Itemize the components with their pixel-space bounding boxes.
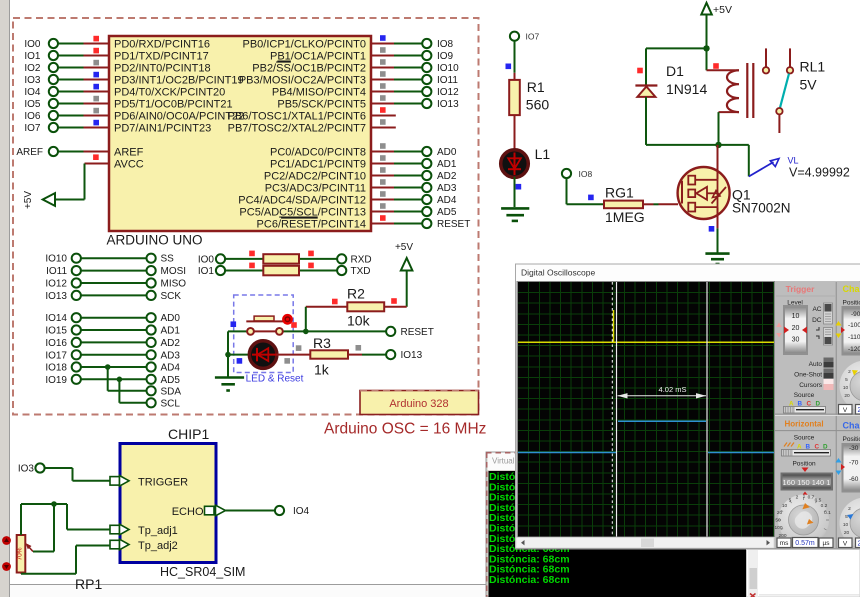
svg-text:Distóncia: 68cm: Distóncia: 68cm (489, 574, 570, 586)
svg-text:IO11: IO11 (46, 266, 67, 277)
svg-text:RL1: RL1 (800, 59, 826, 75)
state indicator (249, 263, 255, 269)
svg-text:10: 10 (792, 313, 800, 320)
terminal pair IO19 to AD5, wire (45, 375, 180, 386)
state indicator (506, 64, 512, 70)
terminal RESET, wire from U1 pin PC6/RESET/PCINT14, state indicator (371, 215, 470, 230)
wire L1 to ground (514, 177, 516, 207)
terminal pair IO11 to MOSI, wire (46, 266, 186, 277)
svg-text:Position: Position (792, 461, 816, 468)
terminal IO8 (gate drive) (562, 169, 593, 179)
svg-text:HC_SR04_SIM: HC_SR04_SIM (160, 565, 245, 579)
svg-text:DC: DC (812, 317, 822, 324)
node junction left rail (225, 352, 231, 358)
svg-text:ECHO: ECHO (172, 506, 204, 518)
svg-text:Source: Source (794, 435, 815, 442)
svg-text:ARDUINO UNO: ARDUINO UNO (107, 233, 203, 248)
svg-text:10: 10 (843, 385, 849, 391)
wire +5V to D1 cathode (646, 48, 707, 85)
cursor line 1 (616, 282, 618, 537)
wire junction to LED anode (228, 354, 250, 356)
state indicator (308, 263, 314, 269)
wire D1 to drain junction (646, 144, 719, 146)
svg-text:PC2/ADC2/PCINT10: PC2/ADC2/PCINT10 (264, 171, 366, 183)
wire IO7 to R1 (514, 41, 516, 80)
terminal IO1, series resistor, terminal TXD (198, 266, 371, 277)
terminal AD1, wire from U1 pin PC1/ADC1/PCINT9, state indicator (371, 155, 457, 170)
svg-text:Digital Oscilloscope: Digital Oscilloscope (521, 268, 595, 278)
Trigger source selector (784, 392, 826, 413)
svg-text:IO12: IO12 (45, 279, 67, 290)
svg-text:SCK: SCK (161, 291, 182, 302)
svg-text:PD4/T0/XCK/PCINT20: PD4/T0/XCK/PCINT20 (114, 87, 225, 99)
blue dashed group box "LED &amp; Reset" (234, 295, 294, 373)
svg-text:IO3: IO3 (18, 464, 35, 475)
svg-text:AD4: AD4 (437, 195, 457, 206)
svg-text:AD0: AD0 (437, 147, 457, 158)
terminal IO0, series resistor, terminal RXD (198, 254, 372, 265)
svg-text:D1: D1 (666, 63, 684, 79)
relay RL1 coil (707, 48, 754, 144)
svg-text:PB7/TOSC2/XTAL2/PCINT7: PB7/TOSC2/XTAL2/PCINT7 (228, 123, 366, 135)
interactive button actuator (red circle) (282, 314, 293, 325)
node junction drain net (715, 142, 721, 148)
svg-text:4.02 mS: 4.02 mS (659, 385, 687, 394)
svg-text:R2: R2 (347, 285, 365, 301)
bottom-right white panel window (747, 550, 860, 599)
svg-text:IO18: IO18 (45, 363, 67, 374)
svg-text:-110: -110 (848, 334, 860, 341)
svg-text:0.7: 0.7 (808, 495, 815, 501)
Level gauge (776, 300, 808, 356)
terminal AD0, wire from U1 pin PC0/ADC0/PCINT8, state indicator (371, 143, 457, 158)
svg-text:IO1: IO1 (198, 266, 215, 277)
svg-text:LED & Reset: LED & Reset (246, 374, 304, 385)
terminal pair IO14 to AD0, wire (45, 313, 180, 324)
svg-text:IO6: IO6 (24, 111, 41, 122)
AC/DC switch (812, 303, 832, 324)
oscilloscope screen (517, 281, 775, 537)
svg-text:PD2/INT0/PCINT18: PD2/INT0/PCINT18 (114, 63, 211, 75)
svg-text:SS: SS (161, 254, 175, 265)
wire R1 to LED L1 (514, 115, 516, 151)
node junction pot top/wiper (51, 501, 57, 507)
svg-text:RESET: RESET (401, 327, 434, 338)
terminal IO1, wire to U1 pin PD1/TXD/PCINT17, state indicator (24, 48, 109, 62)
svg-text:TRIGGER: TRIGGER (138, 477, 188, 489)
svg-text:PD0/RXD/PCINT16: PD0/RXD/PCINT16 (114, 39, 210, 51)
svg-text:1MEG: 1MEG (605, 209, 645, 225)
svg-text:+5V: +5V (23, 191, 34, 209)
svg-text:SDA: SDA (161, 386, 182, 397)
Virtual Terminal text lines (489, 471, 570, 586)
resistor R1 560 (509, 79, 549, 115)
LED D (red, in group) (249, 341, 278, 369)
CHIP1 pin Tp_adj1 (110, 524, 178, 537)
terminal IO6, wire to U1 pin PD6/AIN0/OC0A/PCINT22, state indicator (24, 108, 109, 122)
Auto / One-Shot / Cursors buttons (794, 358, 833, 391)
terminal IO5, wire to U1 pin PD5/T1/OC0B/PCINT21, state indicator (24, 96, 109, 110)
terminal AD2, wire from U1 pin PC2/ADC2/PCINT10, state indicator (371, 167, 457, 182)
potentiometer RP1 body (17, 535, 26, 573)
svg-text:RP1: RP1 (75, 576, 102, 592)
state indicator (588, 195, 594, 201)
svg-text:Cursors: Cursors (799, 382, 823, 389)
svg-text:AREF: AREF (114, 147, 144, 159)
cursor line 2 (706, 282, 708, 537)
relay RL1 contacts (763, 48, 793, 133)
svg-text:IO17: IO17 (45, 350, 67, 361)
svg-text:IO5: IO5 (24, 99, 41, 110)
svg-text:560: 560 (526, 97, 550, 113)
wire RG1 to Q1 gate (643, 203, 678, 205)
label Q1 SN7002N (732, 187, 791, 216)
IC ATmega328 (ARDUINO UNO) body (109, 36, 371, 231)
svg-text:Position: Position (843, 300, 860, 307)
wire Q1 source to ground (717, 207, 719, 253)
svg-text:PD6/AIN0/OC0A/PCINT22: PD6/AIN0/OC0A/PCINT22 (114, 111, 244, 123)
ground (Q1 source) (705, 254, 729, 264)
svg-text:IO13: IO13 (437, 99, 459, 110)
cursor dashed line (611, 282, 613, 537)
svg-text:5V: 5V (800, 77, 818, 93)
wire stub U1 pin PB6/TOSC1/XTAL1/PCINT6 (371, 107, 396, 115)
svg-text:AD5: AD5 (161, 375, 181, 386)
svg-text:MISO: MISO (161, 279, 187, 290)
svg-text:AD1: AD1 (161, 326, 181, 337)
terminal pair IO17 to AD3, wire (45, 350, 180, 361)
terminal AD4, wire from U1 pin PC4/ADC4/SDA/PCINT12, state indicator (371, 191, 457, 206)
RP1 wiper arrow (26, 543, 34, 552)
svg-text:20: 20 (844, 393, 850, 399)
svg-text:AREF: AREF (16, 147, 43, 158)
svg-text:20: 20 (844, 530, 850, 536)
svg-text:PD1/TXD/PCINT17: PD1/TXD/PCINT17 (114, 51, 209, 63)
state indicator (308, 251, 314, 257)
terminal RESET (386, 327, 434, 338)
svg-text:VL: VL (788, 156, 799, 166)
state indicator (709, 226, 715, 232)
svg-text:RG1: RG1 (605, 185, 634, 201)
diode D1 1N914 (635, 63, 707, 97)
svg-text:CHIP1: CHIP1 (168, 426, 209, 442)
svg-text:Position: Position (843, 436, 860, 443)
svg-text:Arduino 328: Arduino 328 (389, 398, 448, 410)
Virtual Terminal dashed selection border (486, 453, 748, 597)
svg-text:1k: 1k (314, 362, 330, 378)
svg-text:0.57m: 0.57m (795, 540, 815, 547)
terminal pair IO12 to MISO, wire (45, 278, 186, 289)
svg-text:PB5/SCK/PCINT5: PB5/SCK/PCINT5 (277, 99, 366, 111)
svg-text:0.5: 0.5 (815, 498, 822, 504)
interactive pot buttons (red) (2, 536, 11, 571)
ground (L1) (501, 208, 529, 221)
svg-text:10k: 10k (347, 313, 371, 329)
resistor R2 10k (306, 285, 407, 328)
node junction on IO18, wire to SDA terminal (105, 364, 181, 397)
svg-text:PD5/T1/OC0B/PCINT21: PD5/T1/OC0B/PCINT21 (114, 99, 233, 111)
svg-text:1N914: 1N914 (666, 81, 707, 97)
Virtual Terminal window (486, 452, 747, 597)
svg-text:IO13: IO13 (401, 350, 423, 361)
svg-text:IO7: IO7 (526, 32, 540, 42)
resistor RG1 1MEG (604, 185, 645, 226)
svg-text:50: 50 (775, 518, 781, 524)
svg-text:+5V: +5V (395, 242, 413, 253)
svg-text:-60: -60 (849, 476, 859, 483)
node junction on IO19, wire to SCL terminal (117, 377, 181, 410)
state indicator (D1) (637, 68, 643, 74)
svg-text:20: 20 (777, 510, 783, 516)
svg-text:PB1/OC1A/PCINT1: PB1/OC1A/PCINT1 (270, 51, 366, 63)
push button (reset) (228, 316, 306, 335)
svg-text:IO15: IO15 (45, 326, 67, 337)
svg-text:IO0: IO0 (198, 254, 215, 265)
svg-text:IO2: IO2 (24, 63, 41, 74)
svg-text:SN7002N: SN7002N (732, 201, 791, 216)
svg-text:IO9: IO9 (437, 51, 454, 62)
svg-text:PB0/ICP1/CLKO/PCINT0: PB0/ICP1/CLKO/PCINT0 (243, 39, 367, 51)
svg-text:IO14: IO14 (45, 313, 67, 324)
svg-text:µs: µs (823, 540, 831, 547)
terminal AREF, wire to U1 pin AREF (16, 147, 109, 158)
label RL1 5V (800, 59, 826, 93)
resistor (series, IO0-RXD) (263, 254, 299, 263)
svg-text:Trigger: Trigger (786, 284, 816, 294)
wire pot top to Tp_adj1 (21, 504, 110, 535)
Digital Oscilloscope window frame (516, 264, 860, 549)
svg-text:AD2: AD2 (437, 171, 457, 182)
power +5V arrow (middle) (395, 242, 413, 307)
svg-text:Horizontal: Horizontal (784, 420, 823, 429)
state indicator (249, 251, 255, 257)
svg-text:IO8: IO8 (579, 169, 593, 179)
svg-text:SCL: SCL (161, 398, 181, 409)
svg-text:2: 2 (796, 495, 799, 501)
terminal IO0, wire to U1 pin PD0/RXD/PCINT16, state indicator (24, 36, 109, 50)
svg-text:-90: -90 (851, 311, 860, 318)
svg-text:One-Shot: One-Shot (794, 372, 822, 379)
channel B trace (blue) (518, 421, 774, 452)
svg-text:L1: L1 (535, 146, 551, 162)
svg-text:-120: -120 (848, 346, 860, 353)
terminal pair IO10 to SS, wire (45, 254, 174, 265)
svg-text:2: 2 (848, 369, 851, 375)
svg-text:IO13: IO13 (45, 291, 67, 302)
voltage probe VL (749, 156, 799, 177)
resistor R3 1k, wire LED to IO13 terminal (276, 335, 422, 378)
svg-text:PC4/ADC4/SDA/PCINT12: PC4/ADC4/SDA/PCINT12 (238, 195, 366, 207)
svg-text:PC1/ADC1/PCINT9: PC1/ADC1/PCINT9 (270, 159, 366, 171)
terminal IO7, wire to U1 pin PD7/AIN1/PCINT23, state indicator (24, 120, 109, 134)
terminal pair IO13 to SCK, wire (45, 291, 181, 302)
CHIP1 pin TRIGGER (110, 476, 188, 489)
svg-text:PD3/INT1/OC2B/PCINT19: PD3/INT1/OC2B/PCINT19 (114, 75, 244, 87)
svg-text:Tp_adj1: Tp_adj1 (138, 525, 178, 537)
state indicator squares around button (291, 322, 297, 328)
terminal IO8, wire from U1 pin PB0/ICP1/CLKO/PCINT0, state indicator (371, 35, 454, 50)
wire IO8 to RG1 (567, 178, 605, 204)
transistor Q1 SN7002N (NMOS) (678, 167, 730, 219)
edge select switch (816, 327, 833, 345)
ground (button/LED rail) (215, 355, 244, 391)
terminal AD5, wire from U1 pin PC5/ADC5/SCL/PCINT13, state indicator (371, 203, 457, 218)
svg-text:IO4: IO4 (293, 506, 310, 517)
svg-text:-70: -70 (849, 460, 859, 467)
svg-text:PC5/ADC5/SCL/PCINT13: PC5/ADC5/SCL/PCINT13 (239, 207, 366, 219)
terminal IO11, wire from U1 pin PB3/MOSI/OC2A/PCINT3, state indicator (371, 71, 458, 86)
svg-text:PB6/TOSC1/XTAL1/PCINT6: PB6/TOSC1/XTAL1/PCINT6 (228, 111, 366, 123)
svg-text:IO12: IO12 (437, 87, 459, 98)
svg-text:IO1: IO1 (24, 51, 41, 62)
cursor measurement 4.02 mS (618, 385, 707, 398)
terminal IO7 (510, 32, 540, 42)
wire R2 junction to RESET row (305, 307, 307, 332)
oscilloscope horizontal scrollbar (516, 538, 774, 549)
svg-text:IO7: IO7 (24, 123, 41, 134)
svg-text:PC3/ADC3/PCINT11: PC3/ADC3/PCINT11 (265, 183, 366, 195)
svg-text:PB3/MOSI/OC2A/PCINT3: PB3/MOSI/OC2A/PCINT3 (239, 75, 366, 87)
IC CHIP1 HC_SR04_SIM body (120, 444, 216, 563)
svg-text:+5V: +5V (713, 4, 732, 16)
svg-text:5: 5 (845, 377, 848, 383)
resistor (series, IO1-TXD) (263, 266, 299, 276)
terminal IO4, wire to U1 pin PD4/T0/XCK/PCINT20, state indicator (24, 84, 109, 98)
terminal pair IO16 to AD2, wire (45, 338, 180, 349)
svg-text:0.1: 0.1 (824, 510, 831, 516)
terminal IO12, wire from U1 pin PB4/MISO/PCINT4, state indicator (371, 83, 459, 98)
Horizontal source selector (782, 435, 831, 457)
svg-text:AD4: AD4 (161, 363, 181, 374)
power +5V arrow (top right) (701, 3, 732, 49)
svg-text:5: 5 (845, 514, 848, 520)
svg-text:Arduino OSC = 16 MHz: Arduino OSC = 16 MHz (324, 421, 486, 438)
terminal pair IO18 to AD4, wire (45, 362, 180, 373)
terminal IO3, wire to U1 pin PD3/INT1/OC2B/PCINT19, state indicator (24, 72, 109, 86)
terminal IO9, wire from U1 pin PB1/OC1A/PCINT1, state indicator (371, 47, 454, 62)
CHIP1 pin Tp_adj2 (110, 539, 178, 552)
svg-text:PD7/AIN1/PCINT23: PD7/AIN1/PCINT23 (114, 123, 211, 135)
wire pot bottom to Tp_adj2 (21, 546, 110, 574)
state indicator (516, 184, 522, 190)
oscilloscope control panel (775, 282, 860, 549)
svg-text:AD2: AD2 (161, 338, 181, 349)
svg-text:10: 10 (782, 503, 788, 509)
svg-text:AC: AC (812, 306, 821, 313)
svg-text:20: 20 (792, 325, 800, 332)
svg-text:V: V (843, 541, 848, 548)
terminal IO2, wire to U1 pin PD2/INT0/PCINT18, state indicator (24, 60, 109, 74)
Arduino module dashed boundary box (13, 18, 479, 415)
svg-text:AD1: AD1 (437, 159, 457, 170)
wire junction to voltage probe (719, 145, 749, 177)
svg-text:5: 5 (789, 498, 792, 504)
LED L1 (501, 146, 551, 177)
svg-text:RESET: RESET (437, 219, 470, 230)
svg-text:PB4/MISO/PCINT4: PB4/MISO/PCINT4 (272, 87, 366, 99)
svg-text:0.2: 0.2 (821, 503, 828, 509)
svg-text:IO11: IO11 (437, 75, 458, 86)
svg-text:Tp_adj2: Tp_adj2 (138, 540, 178, 552)
svg-text:AVCC: AVCC (114, 159, 144, 171)
power +5V arrow (left), wire to U1 pin AVCC (23, 154, 109, 209)
wire to RESET terminal (306, 330, 386, 332)
svg-text:ms: ms (780, 540, 789, 547)
svg-text:30: 30 (792, 337, 800, 344)
svg-text:160 150 140 1: 160 150 140 1 (783, 478, 831, 487)
svg-text:-30: -30 (849, 445, 859, 452)
svg-text:PB2/SS/OC1B/PCINT2: PB2/SS/OC1B/PCINT2 (252, 63, 366, 75)
wire left rail down to LED row (227, 331, 229, 354)
terminal IO3, wire to TRIGGER pin (18, 463, 110, 480)
svg-text:RXD: RXD (351, 254, 372, 265)
svg-text:IO4: IO4 (24, 87, 41, 98)
svg-text:PC0/ADC0/PCINT8: PC0/ADC0/PCINT8 (270, 147, 366, 159)
wire stub U1 pin PB7/TOSC2/XTAL2/PCINT7 (371, 119, 396, 127)
Channel B section (836, 421, 860, 549)
Channel A section (836, 284, 860, 414)
svg-text:PC6/RESET/PCINT14: PC6/RESET/PCINT14 (257, 219, 366, 231)
terminal IO10, wire from U1 pin PB2/SS/OC1B/PCINT2, state indicator (371, 59, 459, 74)
label box Arduino 328 (360, 391, 479, 415)
svg-text:IO19: IO19 (45, 375, 67, 386)
svg-text:V: V (843, 407, 848, 414)
svg-text:-100: -100 (848, 322, 860, 329)
svg-text:R1: R1 (527, 79, 545, 95)
svg-text:2: 2 (848, 506, 851, 512)
wire D1 anode down to drain node (645, 97, 647, 145)
svg-text:100: 100 (774, 525, 782, 531)
Horizontal knob (774, 494, 833, 548)
svg-text:70%: 70% (17, 547, 24, 560)
svg-text:1: 1 (803, 494, 806, 500)
state indicators near LED (237, 358, 243, 364)
svg-text:Channel A: Channel A (843, 284, 860, 294)
svg-text:IO10: IO10 (45, 254, 67, 265)
svg-text:IO10: IO10 (437, 63, 459, 74)
svg-text:10: 10 (843, 522, 849, 528)
svg-text:AD3: AD3 (437, 183, 457, 194)
terminal AD3, wire from U1 pin PC3/ADC3/PCINT11, state indicator (371, 179, 457, 194)
wire drain junction to Q1 (717, 145, 719, 180)
channel A trace (yellow) (518, 310, 774, 342)
svg-text:TXD: TXD (351, 266, 371, 277)
CHIP1 pin ECHO, wire to terminal IO4 (172, 505, 310, 518)
svg-text:AD0: AD0 (161, 313, 181, 324)
svg-text:Channel B: Channel B (843, 421, 860, 431)
terminal IO13, wire from U1 pin PB5/SCK/PCINT5, state indicator (371, 95, 459, 110)
node junction (reset net) (303, 329, 309, 335)
svg-text:Source: Source (794, 392, 815, 399)
Horizontal position gauge (781, 461, 834, 497)
svg-text:IO0: IO0 (24, 39, 41, 50)
terminal pair IO15 to AD1, wire (45, 325, 180, 336)
svg-text:AD3: AD3 (161, 350, 181, 361)
svg-text:R3: R3 (313, 335, 331, 351)
svg-text:Auto: Auto (809, 361, 823, 368)
svg-text:AD5: AD5 (437, 207, 457, 218)
svg-text:IO3: IO3 (24, 75, 41, 86)
node junction +5V (703, 45, 709, 51)
svg-text:MOSI: MOSI (161, 266, 187, 277)
wire wiper to junction (33, 504, 54, 552)
svg-text:V=4.99992: V=4.99992 (789, 166, 850, 180)
svg-text:IO16: IO16 (45, 338, 67, 349)
svg-text:IO8: IO8 (437, 39, 454, 50)
